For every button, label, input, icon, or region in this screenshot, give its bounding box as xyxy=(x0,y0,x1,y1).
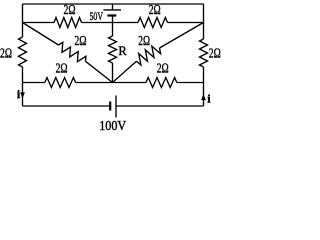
wire middle rail left xyxy=(23,82,45,84)
wire bottom rail left xyxy=(23,105,111,107)
resistor 2ohm left side xyxy=(19,37,27,67)
wire right side lower xyxy=(203,67,205,106)
wire diagonal left lower xyxy=(86,61,113,82)
wire middle rail center xyxy=(76,82,146,84)
wire second rail right xyxy=(168,22,204,24)
wire diagonal left upper xyxy=(23,23,59,46)
current arrow i left (down) xyxy=(20,92,25,98)
wire diagonal right lower xyxy=(113,61,137,82)
battery 50V lead bottom / wire to R xyxy=(112,16,114,37)
svg-text:2Ω: 2Ω xyxy=(74,33,86,48)
wire R to center node xyxy=(112,63,114,83)
battery 50V short plate xyxy=(107,14,116,16)
battery 50V lead top xyxy=(112,4,114,10)
wire left side lower xyxy=(22,67,24,106)
wire left side upper xyxy=(22,4,24,37)
battery 100V short plate xyxy=(109,102,111,111)
wire top rail xyxy=(23,3,204,5)
resistor 2ohm right side xyxy=(200,39,208,67)
resistor 2ohm second rail right xyxy=(138,18,168,28)
svg-text:50V: 50V xyxy=(90,9,104,23)
resistor 2ohm second rail left xyxy=(54,18,82,28)
resistor 2ohm middle rail right xyxy=(146,78,177,88)
svg-text:2Ω: 2Ω xyxy=(149,2,161,17)
wire right side upper xyxy=(203,4,205,39)
svg-text:2Ω: 2Ω xyxy=(64,2,76,17)
svg-text:2Ω: 2Ω xyxy=(56,60,68,75)
resistor 2ohm right diagonal xyxy=(137,46,161,65)
svg-text:i: i xyxy=(17,87,21,101)
wire diagonal right upper xyxy=(160,23,204,49)
wire middle rail right xyxy=(177,82,204,84)
svg-text:2Ω: 2Ω xyxy=(209,45,221,60)
wire bottom rail right xyxy=(116,105,204,107)
svg-text:2Ω: 2Ω xyxy=(157,60,169,75)
wire second rail left xyxy=(23,22,55,24)
svg-text:i: i xyxy=(207,91,211,105)
battery 100V long plate xyxy=(115,96,117,118)
svg-text:2Ω: 2Ω xyxy=(138,33,150,48)
svg-text:R: R xyxy=(118,44,127,58)
resistor R center xyxy=(109,36,117,63)
resistor 2ohm left diagonal xyxy=(59,42,86,61)
resistor 2ohm middle rail left xyxy=(45,78,76,88)
svg-text:100V: 100V xyxy=(99,118,126,133)
wire second rail center xyxy=(82,22,139,24)
svg-text:2Ω: 2Ω xyxy=(0,45,12,60)
current arrow i right (up) xyxy=(201,94,206,100)
battery 50V long plate xyxy=(104,9,122,11)
